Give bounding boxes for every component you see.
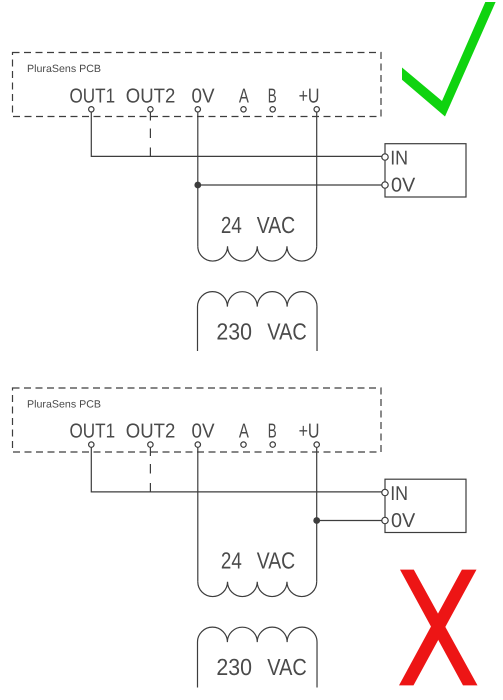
svg-text:VAC: VAC [257, 212, 296, 238]
terminal circle 0V (bottom) [195, 442, 200, 447]
svg-text:OUT1: OUT1 [70, 421, 116, 443]
svg-text:0V: 0V [192, 421, 215, 443]
terminal circle A (top) [241, 107, 246, 112]
svg-text:A: A [239, 85, 249, 107]
wire +U vertical (bottom) [316, 447, 318, 581]
error-mark (red X) stroke 1 [400, 570, 478, 686]
device box (bottom) [385, 479, 466, 532]
svg-text:24: 24 [221, 548, 242, 574]
terminal circle OUT1 (top) [89, 107, 94, 112]
terminal circle +U (top) [314, 107, 319, 112]
svg-text:VAC: VAC [257, 548, 296, 574]
PCB outline U1 (top, dashed) [13, 53, 382, 117]
svg-text:PluraSens PCB: PluraSens PCB [27, 399, 101, 411]
svg-text:0V: 0V [192, 85, 215, 107]
terminal circle OUT2 (bottom) [148, 442, 153, 447]
svg-text:+U: +U [299, 421, 320, 443]
wire OUT2 stub solid (bottom) [149, 447, 151, 456]
device box (top) [385, 144, 466, 197]
transformer T1 24VAC secondary winding (top) [198, 246, 317, 261]
svg-text:0V: 0V [391, 175, 416, 197]
PCB outline U2 (bottom, dashed) [13, 388, 382, 452]
wire OUT2 stub dashed (top) [149, 129, 151, 158]
device pin circle 0V (top) [382, 182, 388, 188]
svg-text:230: 230 [216, 319, 252, 345]
transformer T2 24VAC secondary winding (bottom) [198, 582, 317, 597]
wire +U vertical (top) [316, 112, 318, 246]
svg-text:24: 24 [221, 212, 242, 238]
svg-text:OUT2: OUT2 [126, 85, 176, 107]
svg-text:PluraSens PCB: PluraSens PCB [27, 63, 101, 75]
wire OUT1 to IN (top) [91, 112, 382, 156]
svg-text:VAC: VAC [267, 319, 307, 345]
wire 0V to device (top) [198, 184, 382, 186]
svg-text:IN: IN [390, 147, 408, 169]
wire 0V vertical (top) [197, 112, 199, 246]
wire 0V vertical (bottom) [197, 447, 199, 581]
svg-text:0V: 0V [391, 510, 416, 532]
terminal circle 0V (top) [195, 107, 200, 112]
terminal circle B (bottom) [270, 442, 275, 447]
transformer T2 230VAC primary winding (bottom) [198, 627, 318, 687]
wire OUT1 to IN (bottom) [91, 447, 382, 492]
svg-text:B: B [268, 421, 277, 443]
terminal circle OUT1 (bottom) [89, 442, 94, 447]
svg-text:230: 230 [216, 654, 252, 680]
svg-text:OUT1: OUT1 [70, 85, 116, 107]
terminal circle +U (bottom) [314, 442, 319, 447]
terminal circle OUT2 (top) [148, 107, 153, 112]
junction dot on 0V net (top) [194, 182, 201, 189]
error-mark (red X) stroke 2 [399, 570, 477, 686]
junction dot on +U net (bottom, incorrect) [313, 517, 320, 524]
terminal circle B (top) [270, 107, 275, 112]
wire OUT2 stub solid (top) [149, 112, 151, 121]
svg-text:VAC: VAC [267, 654, 307, 680]
svg-text:A: A [239, 421, 249, 443]
svg-text:OUT2: OUT2 [126, 421, 176, 443]
wire +U to device 0V (bottom, incorrect) [317, 520, 382, 522]
device pin circle 0V (bottom) [382, 517, 388, 523]
correct-mark (green check) [402, 2, 496, 117]
wire OUT2 stub dashed (bottom) [149, 464, 151, 493]
device pin circle IN (top) [382, 154, 388, 160]
svg-text:B: B [268, 85, 277, 107]
svg-text:+U: +U [299, 85, 320, 107]
svg-text:IN: IN [390, 483, 408, 505]
device pin circle IN (bottom) [382, 489, 388, 495]
terminal circle A (bottom) [241, 442, 246, 447]
transformer T1 230VAC primary winding (top) [198, 292, 318, 351]
